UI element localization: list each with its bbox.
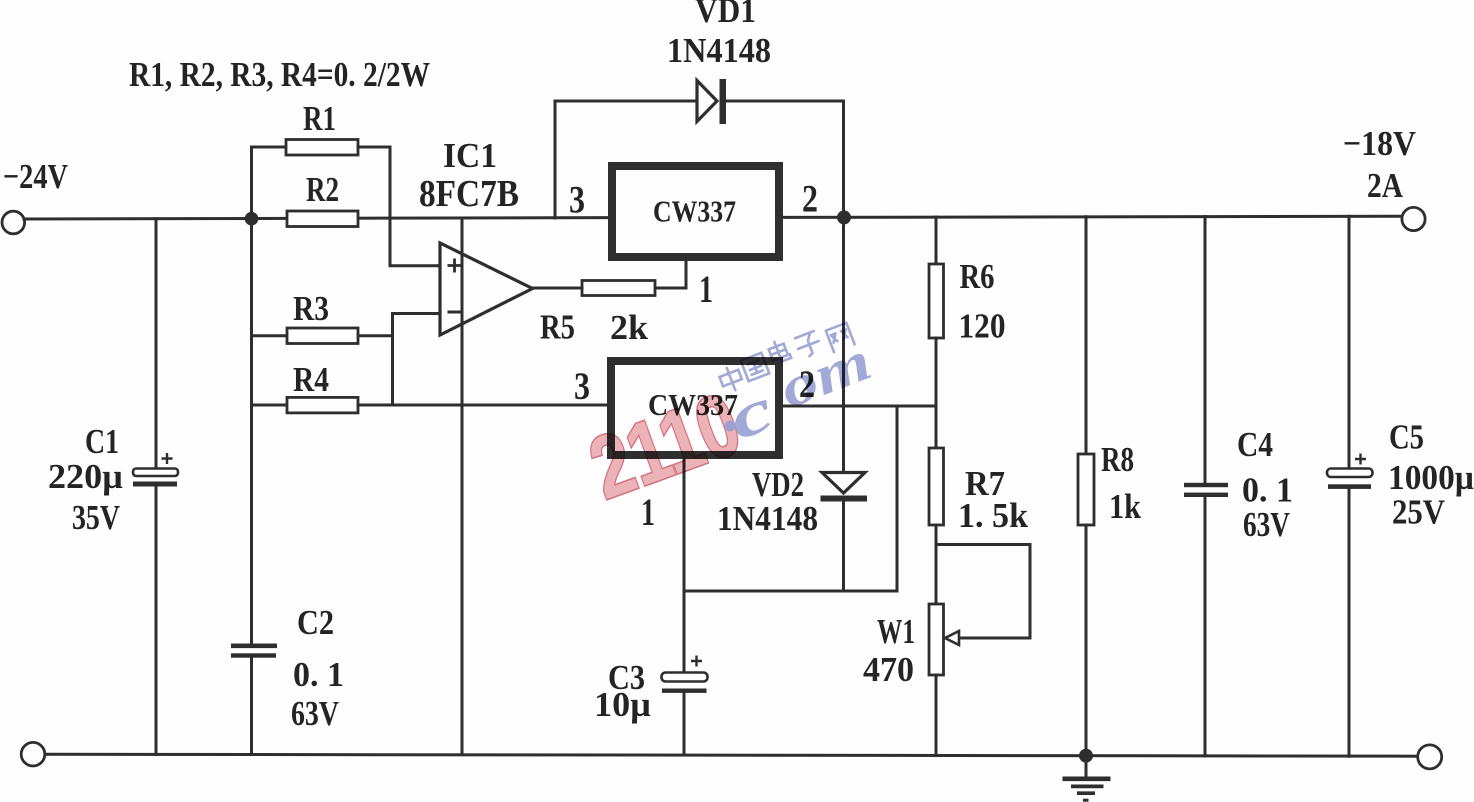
wire C1 branch lower	[155, 487, 158, 755]
resistor R5	[582, 281, 655, 296]
svg-text:C1: C1	[85, 422, 119, 461]
op-amp U1 triangle	[440, 243, 533, 335]
svg-text:470: 470	[863, 650, 914, 689]
node junction dot output	[837, 210, 851, 224]
wire VD1 anode lead	[555, 100, 697, 103]
svg-text:−18V: −18V	[1343, 124, 1416, 163]
svg-text:1: 1	[699, 268, 713, 311]
wire R6 top lead	[935, 217, 938, 264]
diode VD2	[821, 473, 868, 502]
resistor R6	[929, 264, 944, 338]
svg-text:R1, R2, R3, R4=0. 2/2W: R1, R2, R3, R4=0. 2/2W	[129, 55, 430, 94]
capacitor C5	[1327, 454, 1373, 489]
wire W1 wiper loop	[936, 545, 1030, 639]
wire VD2 anode vertical	[842, 218, 845, 473]
wire top rail left	[24, 218, 608, 219]
svg-text:1N4148: 1N4148	[717, 499, 818, 538]
wire R6 to R7	[935, 338, 938, 448]
wire VD1 loop right vertical	[842, 101, 845, 218]
wire C5 top lead	[1348, 216, 1351, 468]
svg-text:0. 1: 0. 1	[1242, 471, 1293, 510]
potentiometer W1	[929, 604, 959, 675]
capacitor C2	[231, 644, 277, 658]
capacitor C4	[1184, 483, 1228, 497]
wire lower pin 1 vertical lower	[683, 693, 686, 756]
wire op-amp minus input vertical	[393, 314, 441, 406]
op-amp plus input symbol	[448, 259, 462, 273]
wire R1 left lead	[252, 146, 287, 149]
svg-text:IC1: IC1	[443, 136, 497, 175]
svg-text:25V: 25V	[1392, 493, 1445, 532]
wire op-amp supply vertical through	[461, 218, 464, 754]
svg-text:10µ: 10µ	[594, 685, 651, 724]
resistor R2	[287, 211, 358, 227]
svg-text:1k: 1k	[1109, 487, 1141, 526]
svg-text:8FC7B: 8FC7B	[419, 173, 519, 215]
wire C4 top lead	[1204, 217, 1207, 484]
wire bottom rail	[45, 754, 1418, 756]
wire lower pin 1 vertical upper	[683, 455, 686, 673]
resistor R3	[287, 328, 358, 344]
wire upper pin 1 lead	[655, 261, 686, 288]
capacitor C3	[662, 656, 708, 693]
resistor R4	[287, 397, 358, 413]
svg-text:63V: 63V	[291, 694, 339, 733]
ground symbol	[1063, 756, 1111, 801]
svg-text:R4: R4	[293, 360, 329, 399]
svg-text:3: 3	[569, 179, 585, 222]
svg-text:C4: C4	[1237, 425, 1273, 464]
input terminal -24V	[2, 211, 25, 234]
node A junction dot -24V	[245, 212, 259, 226]
wire C4 bottom lead	[1204, 497, 1207, 756]
svg-text:1N4148: 1N4148	[667, 31, 771, 70]
wire R1 right lead	[358, 146, 390, 149]
diode VD1	[697, 79, 726, 124]
wire ADJ row horizontal	[684, 590, 897, 593]
wire VD2 cathode vertical	[842, 502, 845, 592]
watermark red 21IC logo	[577, 373, 752, 517]
svg-text:1. 5k: 1. 5k	[958, 496, 1029, 535]
regulator U3 CW337 lower box	[611, 361, 779, 455]
svg-text:R2: R2	[306, 170, 339, 209]
resistor R7	[929, 448, 944, 525]
svg-text:120: 120	[959, 307, 1006, 346]
resistor R1	[286, 140, 358, 156]
wire C1 branch upper	[155, 219, 158, 469]
wire ADJ to pin2 vertical	[896, 406, 899, 591]
wire W1 bottom lead	[935, 675, 938, 756]
op-amp minus input symbol	[448, 311, 462, 314]
wire op-amp output to R5	[533, 287, 583, 290]
output terminal -18V	[1402, 207, 1425, 230]
svg-text:R5: R5	[540, 308, 575, 347]
svg-text:C2: C2	[297, 603, 334, 642]
regulator U2 CW337 upper box	[612, 166, 779, 257]
wire R4 left lead	[252, 404, 288, 407]
svg-text:W1: W1	[877, 612, 915, 651]
wire R-ladder vertical upper	[250, 147, 253, 644]
wire top rail right	[783, 216, 1402, 217]
wire R8 bottom lead	[1085, 525, 1088, 756]
svg-text:VD1: VD1	[695, 0, 756, 30]
wire R-ladder vertical lower	[250, 658, 253, 755]
svg-text:1000µ: 1000µ	[1388, 458, 1474, 497]
wire R1 to op-amp plus input vertical	[390, 147, 440, 266]
wire VD1 loop left vertical	[554, 101, 557, 218]
svg-text:C5: C5	[1389, 418, 1424, 457]
ground junction dot	[1079, 749, 1093, 763]
svg-text:63V: 63V	[1243, 505, 1290, 544]
wire R3 right lead	[358, 334, 393, 337]
wire R3 left lead	[252, 334, 288, 337]
ground terminal bottom-right	[1418, 745, 1442, 769]
svg-text:0. 1: 0. 1	[293, 655, 344, 694]
wire R7 to W1	[935, 525, 938, 604]
svg-text:−24V: −24V	[3, 157, 68, 196]
svg-text:35V: 35V	[72, 498, 120, 537]
ground terminal bottom-left	[21, 742, 45, 766]
wire lower pin 2 row	[783, 405, 936, 408]
svg-text:2k: 2k	[610, 308, 649, 347]
svg-text:2A: 2A	[1367, 166, 1404, 205]
wire R4 row to lower regulator pin 3	[358, 404, 608, 407]
svg-text:R6: R6	[960, 257, 995, 296]
resistor R8	[1078, 454, 1094, 525]
svg-text:3: 3	[574, 365, 590, 408]
wire R8 top lead	[1085, 217, 1088, 454]
watermark blue 中国电子网 .com	[717, 323, 879, 454]
svg-text:R1: R1	[303, 99, 336, 138]
svg-text:R8: R8	[1101, 440, 1134, 479]
svg-text:CW337: CW337	[653, 194, 736, 229]
svg-text:220µ: 220µ	[48, 457, 123, 496]
wire C5 bottom lead	[1348, 489, 1351, 756]
svg-text:2: 2	[802, 178, 818, 221]
capacitor C1	[133, 453, 178, 487]
wire VD1 cathode lead	[726, 100, 844, 103]
svg-text:R3: R3	[293, 289, 329, 328]
